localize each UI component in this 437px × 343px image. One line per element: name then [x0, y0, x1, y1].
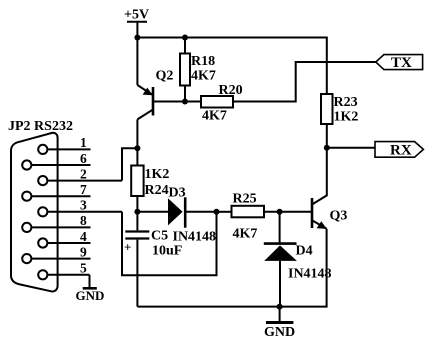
svg-text:6: 6	[80, 151, 87, 166]
wire: R20 to TX flag	[233, 62, 376, 102]
node: Q3 base / R25 / D4	[277, 209, 283, 215]
svg-text:RX: RX	[390, 142, 412, 158]
pin 1	[38, 135, 90, 154]
svg-text:2: 2	[80, 166, 87, 181]
svg-text:R23: R23	[334, 95, 358, 110]
connector JP2 DB9 shell	[8, 119, 73, 291]
svg-text:1K2: 1K2	[334, 110, 359, 125]
svg-text:4K7: 4K7	[233, 227, 258, 242]
node: +5V stem junction	[134, 35, 140, 41]
svg-text:9: 9	[80, 244, 87, 259]
wire: Q3 collector	[312, 148, 327, 205]
svg-text:5: 5	[80, 261, 87, 276]
wire: Q2 emitter feed	[136, 38, 138, 86]
node: D3 cathode / R25 / pin3 loop	[214, 209, 220, 215]
svg-text:IN4148: IN4148	[288, 267, 332, 282]
svg-text:Q2: Q2	[156, 69, 174, 84]
svg-text:JP2 RS232: JP2 RS232	[8, 119, 73, 134]
svg-text:GND: GND	[264, 325, 295, 340]
node: pin2 / Q2 collector / R24 top	[134, 145, 140, 151]
wire: +5V top rail	[137, 38, 326, 95]
svg-text:4: 4	[80, 229, 87, 244]
svg-text:8: 8	[80, 213, 87, 228]
power +5V	[124, 8, 149, 38]
svg-text:4K7: 4K7	[191, 69, 216, 84]
pin 9	[22, 244, 90, 263]
pin 6	[22, 151, 90, 170]
wire: R25 to Q3 base	[264, 211, 312, 213]
svg-text:Q3: Q3	[330, 209, 348, 224]
svg-text:R20: R20	[219, 83, 243, 98]
wire: pin2 jog	[122, 148, 137, 180]
pin 2	[38, 166, 122, 185]
svg-text:+5V: +5V	[124, 8, 149, 23]
svg-text:TX: TX	[391, 55, 412, 71]
svg-text:D4: D4	[296, 244, 313, 259]
svg-text:3: 3	[80, 198, 87, 213]
svg-text:R24: R24	[145, 183, 169, 198]
net flag RX	[375, 142, 423, 159]
transistor Q2	[137, 69, 173, 120]
wire: pin3 U-path	[122, 212, 217, 275]
resistor R23	[321, 94, 358, 125]
pin 8	[22, 213, 90, 232]
svg-text:+: +	[124, 240, 131, 255]
wire: Q2 base row	[153, 101, 201, 103]
pin 3	[38, 198, 122, 217]
ground (DB9 pin5)	[76, 275, 105, 303]
resistor R20	[201, 83, 243, 124]
diode D3	[137, 186, 216, 245]
svg-text:10uF: 10uF	[152, 244, 182, 259]
transistor Q3	[312, 198, 347, 229]
svg-text:GND: GND	[76, 288, 105, 303]
node: RX junction	[324, 145, 330, 151]
svg-text:1: 1	[80, 135, 87, 150]
svg-text:R18: R18	[191, 54, 215, 69]
svg-text:D3: D3	[169, 186, 186, 201]
wire: R23 bottom to RX node	[326, 124, 328, 148]
ground (center)	[264, 307, 295, 340]
node: R18 top	[182, 35, 188, 41]
node: R24 bottom / C5 top / D3 anode	[134, 209, 140, 215]
svg-text:7: 7	[80, 182, 87, 197]
svg-text:R25: R25	[233, 192, 257, 207]
diode D4	[264, 212, 332, 307]
resistor R24	[131, 148, 169, 212]
node: D4 anode on ground rail	[277, 304, 283, 310]
wire: RX	[327, 147, 375, 149]
svg-text:4K7: 4K7	[202, 109, 227, 124]
resistor R18	[180, 38, 216, 102]
pin 4	[38, 229, 90, 248]
node: R18 bottom	[182, 99, 188, 105]
net flag TX	[376, 55, 423, 71]
pin 5	[38, 261, 89, 280]
wire: Q3 emitter to ground rail	[137, 229, 326, 307]
svg-text:IN4148: IN4148	[173, 230, 217, 245]
wire: Q2 collector drop	[136, 119, 138, 148]
resistor R25	[217, 192, 265, 242]
svg-text:1K2: 1K2	[145, 167, 170, 182]
pin 7	[22, 182, 90, 201]
capacitor C5	[124, 212, 182, 307]
svg-text:C5: C5	[151, 229, 168, 244]
